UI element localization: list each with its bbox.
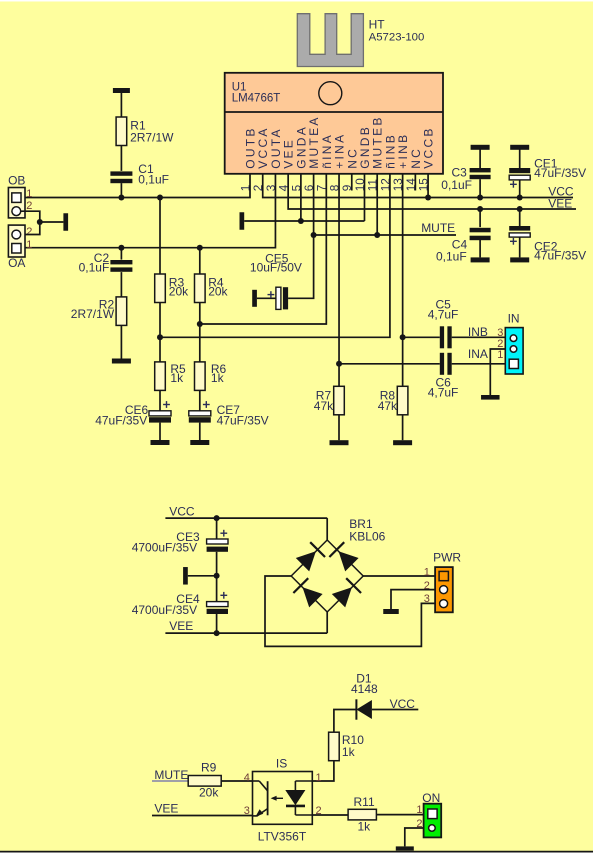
svg-text:4700uF/35V: 4700uF/35V — [132, 541, 197, 555]
svg-text:0,1uF: 0,1uF — [441, 178, 472, 192]
wire U1 pin7 nINA to R4/R6 — [200, 174, 327, 324]
svg-text:HT: HT — [369, 18, 386, 32]
wire OUTB net junction C1 — [118, 195, 124, 201]
connector OB — [8, 173, 32, 218]
wire OB pin2 to ground and OA pin2 — [21, 211, 64, 234]
wire R7 to ground — [338, 415, 340, 440]
svg-text:4,7uF: 4,7uF — [428, 307, 459, 321]
wire R4 to R6 — [199, 303, 201, 362]
wire ground to R1 — [120, 93, 122, 118]
resistor R10 — [329, 732, 365, 761]
ground bar below CE6 — [151, 440, 170, 445]
wire ground to CE1 — [519, 149, 521, 168]
svg-text:1: 1 — [26, 239, 32, 251]
svg-text:KBL06: KBL06 — [349, 530, 385, 544]
svg-text:0,1uF: 0,1uF — [79, 260, 110, 274]
wire D1 to R10 — [334, 710, 357, 733]
wire INB to C5 — [403, 336, 440, 338]
net label VEE mid — [169, 619, 193, 633]
resistor R9 — [188, 760, 221, 799]
capacitor CE7 — [189, 401, 269, 427]
svg-text:PWR: PWR — [433, 550, 461, 564]
net label VEE bottom — [154, 802, 178, 816]
node OUTA C2 junction — [118, 245, 124, 251]
capacitor CE4 — [132, 592, 228, 617]
svg-text:OB: OB — [8, 173, 25, 187]
wire R6 to CE7 — [199, 390, 201, 410]
ground bar below R7 — [330, 440, 349, 445]
wire VEE to CE2 — [519, 209, 521, 226]
bottom frame line — [0, 851, 593, 853]
svg-text:1k: 1k — [211, 371, 225, 385]
svg-text:OA: OA — [8, 256, 25, 270]
net label VCC right — [548, 184, 574, 198]
ground bar below C4 — [471, 257, 490, 262]
diode D1 — [356, 699, 372, 719]
svg-text:20k: 20k — [208, 285, 228, 299]
wire C4 to ground — [479, 238, 481, 258]
capacitor CE1 — [509, 157, 586, 188]
capacitor CE3 — [132, 530, 228, 555]
svg-text:1: 1 — [26, 188, 32, 200]
ground bar above R1 — [113, 88, 130, 93]
svg-text:LTV356T: LTV356T — [258, 829, 307, 843]
resistor R11 — [348, 795, 376, 834]
svg-text:A5723-100: A5723-100 — [369, 31, 425, 43]
wire R9 to IS pin4 — [221, 780, 252, 782]
resistor R3 — [155, 274, 189, 303]
capacitor CE5 — [250, 252, 302, 310]
svg-text:2: 2 — [26, 200, 32, 212]
ground bar at CE5 — [252, 290, 257, 307]
svg-text:INB: INB — [468, 325, 488, 339]
wire R10 to IS pin1 — [312, 761, 334, 781]
svg-text:VEE: VEE — [169, 619, 193, 633]
wire VCC to CE3 — [216, 518, 218, 539]
wire U1 pin11 MUTEB stub — [376, 174, 378, 235]
node VEE CE4 junction — [214, 630, 220, 636]
svg-text:47uF/35V: 47uF/35V — [95, 413, 147, 427]
connector IN — [497, 312, 523, 374]
wire R1 to C1 — [120, 146, 122, 171]
net label MUTE bottom — [154, 768, 188, 782]
svg-text:4,7uF: 4,7uF — [428, 385, 459, 399]
wire CE3 to CE4 — [216, 552, 218, 602]
node VCC CE3 junction — [214, 515, 220, 521]
resistor R5 — [155, 362, 186, 391]
node VEE CE2 junction — [517, 206, 523, 212]
resistor R1 — [116, 117, 174, 146]
svg-text:4: 4 — [244, 772, 250, 784]
svg-text:47k: 47k — [378, 399, 398, 413]
svg-text:VEE: VEE — [154, 802, 178, 816]
wire VEE rail mid — [165, 632, 327, 634]
resistor R4 — [195, 274, 229, 303]
label D1 — [351, 672, 378, 697]
ground bar above CE1 — [510, 145, 529, 150]
wire INA to C6 — [339, 363, 440, 365]
capacitor C1 — [110, 162, 169, 186]
wire ON pin2 to ground — [405, 828, 424, 846]
node OUTA R4 junction — [197, 245, 203, 251]
svg-text:MUTE: MUTE — [421, 221, 455, 235]
wire U1 pin2 VCCA to VCC rail — [263, 174, 573, 198]
wire R8 to ground — [402, 415, 404, 440]
svg-text:VEE: VEE — [548, 197, 572, 211]
svg-text:47k: 47k — [314, 399, 334, 413]
node nINB R3/R5 junction — [157, 334, 163, 340]
net label VCC bottom — [390, 697, 416, 711]
svg-text:0,1uF: 0,1uF — [436, 250, 467, 264]
wire MUTE net — [314, 234, 456, 236]
wire MUTE to R9 (gray) — [152, 780, 188, 782]
node VCC pin15 junction — [425, 195, 431, 201]
svg-text:2R7/1W: 2R7/1W — [71, 307, 115, 321]
svg-text:1k: 1k — [342, 745, 356, 759]
ground bar below R8 — [393, 440, 412, 445]
wire U1 pin3 OUTA to OA — [21, 174, 275, 248]
node +INB INB junction — [400, 334, 406, 340]
capacitor CE6 — [95, 401, 171, 427]
wire CE6 to ground — [159, 423, 161, 440]
svg-text:1: 1 — [497, 349, 503, 361]
wire C2 to R2 — [120, 272, 122, 297]
wire ground line to pins 5 and 10 — [244, 220, 364, 222]
resistor R6 — [195, 362, 227, 391]
ground bar below IN pin2 — [481, 395, 500, 400]
wire C3 to VCC — [479, 179, 481, 197]
wire bridge AC right to PWR pin1 — [363, 575, 435, 577]
svg-text:47uF/35V: 47uF/35V — [534, 249, 586, 263]
wire OUTB net junction R3 — [157, 195, 163, 201]
resistor R2 — [71, 297, 127, 326]
svg-text:10uF/50V: 10uF/50V — [250, 261, 302, 275]
wire D1 to VCC label — [372, 709, 418, 711]
svg-text:4700uF/35V: 4700uF/35V — [132, 603, 197, 617]
svg-text:4148: 4148 — [351, 682, 378, 696]
capacitor C4 — [436, 228, 491, 264]
wire OUTA to R4 — [199, 248, 201, 274]
node VCC C3 junction — [477, 195, 483, 201]
wire CE4 to VEE — [216, 614, 218, 633]
node +INA INA junction — [336, 361, 342, 367]
ground bar at OB/OA — [63, 213, 68, 231]
wire VEE to IS pin3 — [152, 815, 253, 817]
wire U1 pin14 NC stub — [414, 174, 416, 191]
resistor R7 — [314, 386, 345, 415]
svg-text:R11: R11 — [354, 795, 375, 809]
node VCC CE1 junction — [517, 195, 523, 201]
IC U1 LM4766T — [225, 73, 443, 192]
wire U1 pin13 +INB down to R8 — [402, 174, 404, 386]
wire U1 pin6 MUTEA stub — [313, 174, 315, 235]
ground bar below CE7 — [190, 440, 209, 445]
heatsink HT A5723-100 — [297, 14, 424, 67]
node nINA R4/R6 junction — [197, 321, 203, 327]
wire U1 pin5 GNDA stub — [300, 174, 302, 221]
svg-text:47uF/35V: 47uF/35V — [534, 166, 586, 180]
svg-text:47uF/35V: 47uF/35V — [217, 413, 269, 427]
svg-text:1k: 1k — [170, 371, 184, 385]
ground bar below CE2 — [510, 257, 529, 262]
svg-text:VCCB: VCCB — [422, 126, 436, 169]
capacitor CE2 — [509, 226, 586, 263]
wire R11 to ON pin1 — [376, 814, 423, 816]
svg-text:1: 1 — [424, 566, 430, 578]
net label MUTE — [421, 221, 455, 235]
svg-text:1: 1 — [316, 772, 322, 784]
wire U1 pin12 nINB to R3/R5 — [160, 174, 390, 337]
net label VEE right — [548, 197, 572, 211]
resistor R8 — [378, 386, 408, 415]
ground bar below PWR pin2 — [383, 609, 399, 614]
svg-text:VCC: VCC — [169, 505, 195, 519]
svg-text:3: 3 — [424, 593, 430, 605]
wire VCC rail mid — [165, 517, 327, 519]
svg-text:20k: 20k — [169, 285, 189, 299]
net label INA — [468, 347, 488, 361]
svg-text:1k: 1k — [358, 820, 372, 834]
bridge rectifier BR1 KBL06 — [291, 517, 385, 612]
svg-text:LM4766T: LM4766T — [232, 92, 281, 104]
wire R2 to ground — [120, 325, 122, 358]
ground bar below R2 — [112, 359, 131, 364]
wire U1 pin9 NC stub — [351, 174, 353, 191]
connector PWR — [424, 550, 462, 612]
node ground CE3/CE4 junction — [214, 573, 220, 579]
wire CE7 to ground — [199, 423, 201, 440]
wire CE1 to VCC — [519, 180, 521, 198]
wire R5 to CE6 — [159, 390, 161, 410]
wire VEE to C4 — [479, 209, 481, 227]
wire C6 to IN pin1 — [452, 363, 510, 365]
wire ground tee — [188, 575, 217, 577]
wire bridge plus to VCC — [326, 518, 328, 540]
wire U1 pin4 VEE to VEE rail — [288, 174, 576, 209]
wire R3 to R5 — [159, 303, 161, 362]
svg-text:IN: IN — [508, 312, 520, 326]
wire U1 pin8 +INA down to R7 — [338, 174, 340, 386]
wire CE2 to ground — [519, 237, 521, 257]
capacitor C3 — [441, 165, 490, 192]
wire U1 pin15 VCCB stub — [427, 174, 429, 198]
connector OA — [8, 225, 32, 270]
wire C1 to OUTB — [120, 183, 122, 197]
ground bar below ON pin2 — [396, 846, 414, 850]
svg-text:INA: INA — [468, 347, 488, 361]
svg-text:2: 2 — [26, 226, 32, 238]
net label VCC mid — [169, 505, 195, 519]
wire bridge AC left to PWR pin3 — [265, 576, 435, 646]
svg-text:R9: R9 — [201, 760, 217, 774]
svg-text:2R7/1W: 2R7/1W — [130, 131, 174, 145]
svg-text:3: 3 — [244, 805, 250, 817]
wire CE5 to MUTE — [288, 235, 314, 298]
wire IN pin2 to ground — [490, 349, 505, 395]
node MUTEA junction — [311, 232, 317, 238]
svg-text:ON: ON — [422, 791, 440, 805]
ground bar left of U1 — [240, 212, 245, 230]
wire C5 to IN pin3 — [452, 336, 506, 338]
wire U1 pin1 OUTB stub — [21, 174, 250, 198]
wire OUTB to R3 — [159, 198, 161, 275]
capacitor C2 — [79, 251, 133, 275]
wire PWR pin2 to ground — [391, 590, 435, 609]
ground bar above C3 — [471, 145, 490, 150]
wire bridge minus to VEE — [326, 612, 328, 633]
wire IS pin2 to R11 — [312, 814, 348, 816]
node OB/OA ground junction — [37, 219, 43, 225]
svg-text:0,1uF: 0,1uF — [138, 172, 169, 186]
optocoupler IS LTV356T — [244, 756, 322, 843]
svg-text:20k: 20k — [199, 786, 219, 800]
wire ground to CE5 — [257, 297, 276, 299]
svg-text:VCC: VCC — [390, 697, 416, 711]
node MUTEB junction — [374, 232, 380, 238]
ground bar mid — [183, 567, 188, 585]
capacitor C6 — [428, 353, 459, 400]
node GNDA junction — [298, 218, 304, 224]
connector ON — [416, 791, 441, 837]
svg-text:IS: IS — [276, 756, 287, 770]
net label INB — [468, 325, 488, 339]
capacitor C5 — [428, 297, 459, 348]
node VEE C4 junction — [477, 206, 483, 212]
wire ground to C3 — [479, 149, 481, 168]
wire U1 pin10 GNDB stub — [363, 174, 365, 221]
wire OUTA to C2 — [120, 248, 122, 260]
svg-text:1: 1 — [416, 804, 422, 816]
